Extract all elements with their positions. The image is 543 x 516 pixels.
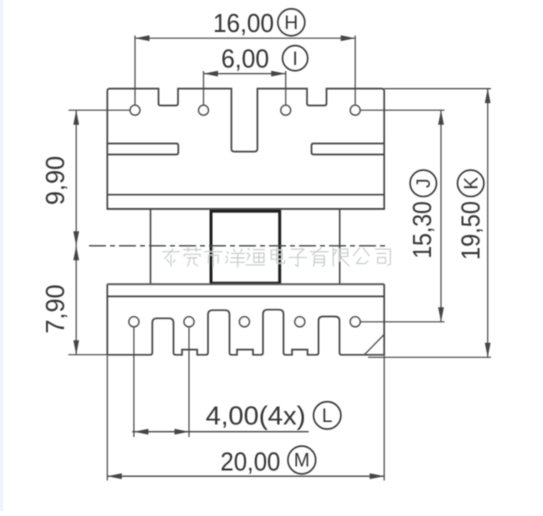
svg-text:7,90: 7,90 xyxy=(40,284,70,333)
dimension H 16,00: circled H xyxy=(278,9,305,36)
dimension I 6,00: extension lines xyxy=(203,71,205,105)
corner chamfer mark xyxy=(365,335,385,355)
top flange outline xyxy=(107,89,384,209)
left winding post edge xyxy=(150,209,152,284)
dimension H 16,00: dimension line xyxy=(135,37,355,39)
horizontal centerline xyxy=(89,245,387,247)
left winding slot xyxy=(107,144,178,155)
right winding slot xyxy=(312,144,385,155)
dimension L 4,00: circled L xyxy=(314,402,341,429)
pin 2 top hole xyxy=(199,105,209,115)
watermark company name xyxy=(163,247,391,267)
svg-text:J: J xyxy=(414,179,435,189)
pin 2 bottom hole xyxy=(184,317,194,327)
dimension 7,90: dimension line xyxy=(75,246,77,355)
right winding post edge xyxy=(339,209,341,284)
top flange bottom edge xyxy=(107,208,384,210)
dimension L 4,00: extension lines (pin leads) xyxy=(133,327,135,437)
dimension J 15,30: circled J xyxy=(410,170,436,196)
svg-text:16,00: 16,00 xyxy=(213,8,274,38)
svg-text:15,30: 15,30 xyxy=(407,201,437,259)
dimension 9,90: extension line xyxy=(69,109,131,111)
dimension H 16,00: extension lines xyxy=(134,36,136,106)
bottom flange outline with pin slots xyxy=(107,284,384,355)
svg-text:I: I xyxy=(292,49,297,70)
pin 1 top hole xyxy=(130,105,140,115)
dimension L 4,00: dimension line xyxy=(132,431,308,433)
svg-text:M: M xyxy=(294,451,310,472)
svg-text:L: L xyxy=(322,406,333,427)
dimension I 6,00: circled I xyxy=(283,46,308,71)
dimension M 20,00: extension lines xyxy=(106,356,108,481)
svg-text:9,90: 9,90 xyxy=(40,156,70,205)
pin 3 top hole xyxy=(281,105,291,115)
svg-text:6,00: 6,00 xyxy=(221,43,269,73)
dimension M 20,00: circled M xyxy=(288,446,316,474)
top flange inner line xyxy=(107,194,384,196)
pin 5 bottom hole xyxy=(350,317,360,327)
core window (thick square) xyxy=(211,211,280,283)
pin 4 top hole xyxy=(350,105,360,115)
bottom flange top edge xyxy=(107,283,384,285)
bottom flange inner line xyxy=(107,295,384,297)
dimension J 15,30: extension lines xyxy=(360,109,444,111)
svg-text:19,50: 19,50 xyxy=(456,201,486,260)
dimension K 19,50: dimension line xyxy=(487,89,489,358)
pin 4 bottom hole xyxy=(295,317,305,327)
svg-text:20,00: 20,00 xyxy=(220,447,280,477)
dimension K 19,50: extension lines xyxy=(384,88,491,90)
svg-text:K: K xyxy=(461,177,482,190)
svg-text:4,00(4x): 4,00(4x) xyxy=(206,401,306,431)
pin 1 bottom hole xyxy=(129,317,139,327)
left page edge strip xyxy=(0,0,3,511)
dimension 9,90: dimension line xyxy=(75,110,77,246)
svg-text:H: H xyxy=(284,13,298,34)
dimension J 15,30: dimension line xyxy=(440,110,442,322)
pin 3 bottom hole xyxy=(239,317,249,327)
dimension 7,90: extension line xyxy=(68,354,106,356)
dimension I 6,00: dimension line xyxy=(204,73,286,75)
dimension K 19,50: circled K xyxy=(458,170,484,196)
dimension M 20,00: dimension line xyxy=(107,475,384,477)
